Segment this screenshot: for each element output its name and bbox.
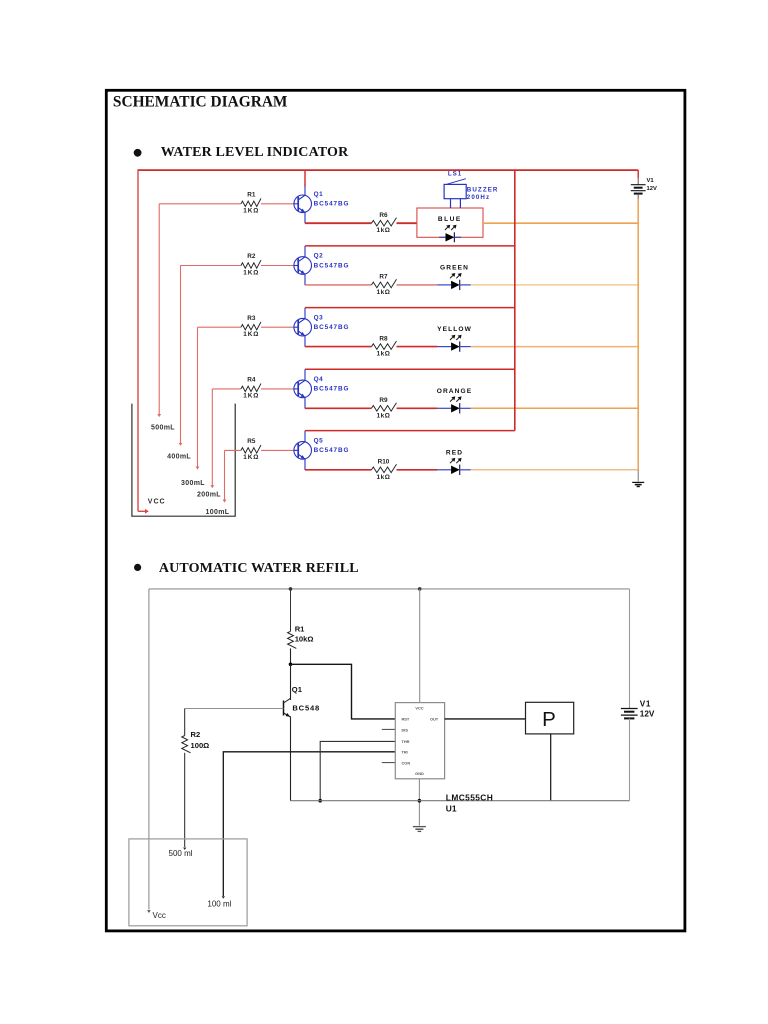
svg-text:R4: R4 bbox=[247, 377, 256, 384]
svg-text:RST: RST bbox=[402, 716, 410, 721]
svg-text:DIS: DIS bbox=[402, 728, 409, 733]
svg-text:100Ω: 100Ω bbox=[191, 741, 210, 750]
svg-text:ORANGE: ORANGE bbox=[437, 388, 473, 395]
svg-text:R9: R9 bbox=[379, 397, 388, 404]
svg-text:LMC555CH: LMC555CH bbox=[446, 792, 493, 802]
svg-text:WATER LEVEL INDICATOR: WATER LEVEL INDICATOR bbox=[161, 145, 349, 160]
svg-text:R2: R2 bbox=[247, 253, 256, 260]
svg-text:R3: R3 bbox=[247, 315, 256, 322]
svg-text:Q3: Q3 bbox=[314, 314, 324, 321]
svg-text:BLUE: BLUE bbox=[438, 216, 462, 223]
svg-text:THR: THR bbox=[402, 739, 410, 744]
svg-text:400mL: 400mL bbox=[167, 454, 191, 461]
svg-text:1kΩ: 1kΩ bbox=[376, 412, 390, 419]
svg-text:100 ml: 100 ml bbox=[207, 900, 231, 909]
svg-text:R7: R7 bbox=[379, 274, 388, 281]
svg-text:Q2: Q2 bbox=[314, 253, 324, 260]
svg-text:BUZZER: BUZZER bbox=[467, 186, 499, 193]
svg-text:V1: V1 bbox=[647, 178, 655, 184]
svg-text:10kΩ: 10kΩ bbox=[295, 635, 314, 644]
svg-text:V1: V1 bbox=[640, 699, 651, 708]
svg-text:P: P bbox=[542, 708, 556, 731]
svg-text:BC547BG: BC547BG bbox=[314, 447, 350, 454]
svg-text:500 ml: 500 ml bbox=[169, 849, 193, 858]
svg-text:BC547BG: BC547BG bbox=[314, 262, 350, 269]
svg-text:300mL: 300mL bbox=[181, 480, 205, 487]
svg-text:VCC: VCC bbox=[415, 705, 423, 710]
svg-text:100mL: 100mL bbox=[206, 509, 230, 516]
svg-text:TRI: TRI bbox=[402, 750, 408, 755]
svg-text:12V: 12V bbox=[640, 710, 655, 719]
svg-text:1KΩ: 1KΩ bbox=[243, 208, 259, 215]
svg-text:R1: R1 bbox=[295, 625, 305, 634]
svg-text:200Hz: 200Hz bbox=[467, 194, 490, 201]
svg-text:Q1: Q1 bbox=[314, 191, 324, 198]
svg-text:R2: R2 bbox=[191, 730, 201, 739]
svg-text:VCC: VCC bbox=[148, 499, 166, 506]
svg-text:LS1: LS1 bbox=[448, 171, 462, 178]
svg-text:Q5: Q5 bbox=[314, 438, 324, 445]
svg-text:1KΩ: 1KΩ bbox=[243, 454, 259, 461]
svg-text:BC547BG: BC547BG bbox=[314, 201, 350, 208]
svg-text:BC547BG: BC547BG bbox=[314, 324, 350, 331]
svg-text:AUTOMATIC WATER REFILL: AUTOMATIC WATER REFILL bbox=[159, 561, 359, 576]
svg-text:1kΩ: 1kΩ bbox=[376, 351, 390, 358]
svg-text:BC547BG: BC547BG bbox=[314, 386, 350, 393]
svg-text:Vcc: Vcc bbox=[153, 911, 166, 920]
svg-text:12V: 12V bbox=[647, 186, 657, 192]
svg-text:CON: CON bbox=[402, 760, 411, 765]
svg-text:GREEN: GREEN bbox=[440, 264, 469, 271]
svg-text:500mL: 500mL bbox=[151, 424, 175, 431]
svg-text:Q4: Q4 bbox=[314, 376, 324, 383]
svg-text:SCHEMATIC DIAGRAM: SCHEMATIC DIAGRAM bbox=[113, 94, 288, 111]
svg-text:BC548: BC548 bbox=[292, 704, 320, 713]
svg-text:RED: RED bbox=[446, 449, 463, 456]
svg-text:YELLOW: YELLOW bbox=[437, 326, 472, 333]
svg-text:R10: R10 bbox=[378, 459, 390, 466]
svg-text:OUT: OUT bbox=[430, 716, 439, 721]
svg-text:1kΩ: 1kΩ bbox=[376, 227, 390, 234]
svg-text:1kΩ: 1kΩ bbox=[376, 474, 390, 481]
svg-text:R5: R5 bbox=[247, 438, 256, 445]
svg-text:GND: GND bbox=[415, 771, 424, 776]
svg-text:R1: R1 bbox=[247, 191, 256, 198]
svg-text:1kΩ: 1kΩ bbox=[376, 289, 390, 296]
svg-text:R8: R8 bbox=[379, 335, 388, 342]
svg-text:R6: R6 bbox=[379, 212, 388, 219]
svg-text:1KΩ: 1KΩ bbox=[243, 393, 259, 400]
svg-text:U1: U1 bbox=[446, 804, 457, 814]
svg-text:Q1: Q1 bbox=[292, 685, 303, 694]
svg-text:1KΩ: 1KΩ bbox=[243, 269, 259, 276]
svg-text:200mL: 200mL bbox=[197, 492, 221, 499]
svg-text:1KΩ: 1KΩ bbox=[243, 331, 259, 338]
